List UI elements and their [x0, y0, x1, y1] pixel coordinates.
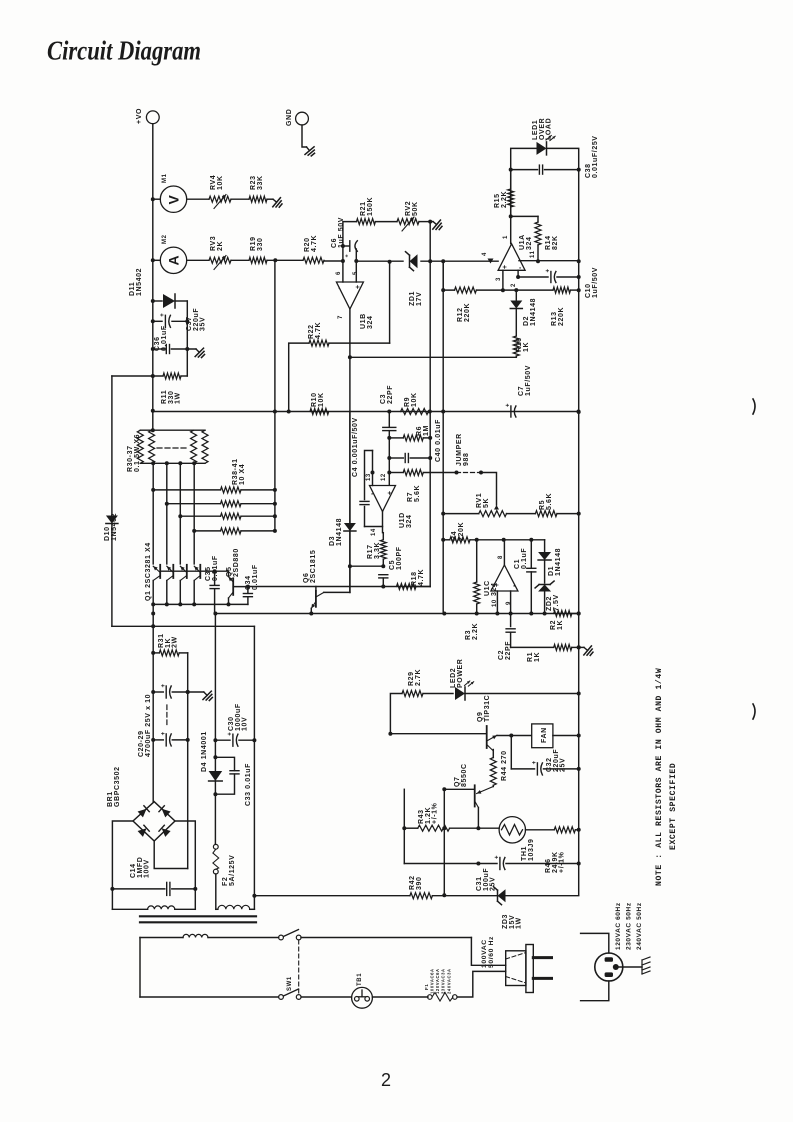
svg-text:R224.7K: R224.7K	[308, 322, 322, 339]
wire node A	[267, 259, 303, 261]
wire C30 column	[253, 626, 255, 909]
diode D1 1N4148	[544, 540, 546, 552]
svg-text:R44 270: R44 270	[501, 750, 508, 781]
capacitor C7 1uF/50V	[510, 406, 512, 417]
ground	[200, 688, 215, 703]
meter M2	[160, 247, 186, 273]
wire bridge left	[112, 821, 133, 889]
wire	[423, 693, 453, 695]
potentiometer RV3 2K	[209, 257, 231, 263]
ground	[580, 643, 595, 658]
svg-text:+: +	[228, 732, 234, 736]
capacitor C3 22PF	[388, 412, 390, 428]
resistor R3 2.2K	[476, 540, 478, 582]
svg-text:R61M: R61M	[416, 425, 430, 436]
svg-text:TB1: TB1	[357, 973, 363, 986]
svg-text:4: 4	[482, 252, 488, 256]
wire	[372, 996, 428, 998]
transistor Q1c 2SC3281	[186, 565, 188, 578]
svg-text:U1D324: U1D324	[399, 512, 413, 528]
wire M2 row	[153, 259, 161, 261]
capacitor C31 100uF 25V	[499, 858, 501, 870]
svg-text:11: 11	[530, 250, 536, 258]
resistor R7 5.6K	[403, 470, 423, 476]
svg-text:C33 0.01uF: C33 0.01uF	[245, 763, 252, 806]
svg-text:100VAC50/60 Hz: 100VAC50/60 Hz	[481, 936, 495, 968]
wire	[231, 259, 249, 261]
svg-text:C40 0.01uF: C40 0.01uF	[435, 419, 442, 462]
LED LED2 POWER	[455, 687, 465, 700]
svg-text:R1482K: R1482K	[545, 235, 559, 250]
wire to U1B inputs	[324, 260, 343, 262]
wire D10 bottom row	[112, 625, 255, 627]
svg-text:6: 6	[336, 271, 342, 275]
wire Q9 emitter row	[497, 735, 532, 737]
resistor R15 2.2K	[510, 170, 512, 189]
svg-text:ZD117V: ZD117V	[409, 291, 423, 306]
wire U1B pin5	[355, 249, 357, 282]
capacitor C20 4700uF	[153, 691, 163, 693]
resistor R16 1K	[513, 336, 519, 356]
wire ground column	[429, 222, 431, 587]
wire AC bottom	[140, 996, 279, 998]
svg-text:R2333K: R2333K	[250, 175, 264, 190]
wire	[432, 895, 497, 897]
transformer secondary 2	[216, 908, 218, 910]
wire D4 column	[214, 614, 216, 772]
svg-text:Q1 2SC3281 X4: Q1 2SC3281 X4	[145, 542, 152, 601]
svg-text:A: A	[166, 255, 182, 265]
wire connector top	[581, 933, 609, 953]
resistor R44 270	[490, 758, 496, 786]
transistor Q7 8550C	[474, 785, 476, 806]
svg-text:RV250K: RV250K	[405, 201, 419, 216]
wire Q6 collector	[316, 592, 324, 597]
svg-text:RV410K: RV410K	[210, 175, 224, 190]
op-amp U1B 324	[336, 282, 363, 309]
capacitor C14 1MFD 100V	[112, 888, 164, 890]
wire R7 row	[389, 472, 403, 474]
svg-text:R11K: R11K	[527, 652, 541, 662]
svg-text:+VO: +VO	[136, 108, 143, 124]
plug P1	[506, 951, 526, 986]
wire column x275	[274, 260, 276, 531]
wire rail	[215, 604, 579, 613]
svg-text:2: 2	[381, 1070, 391, 1090]
svg-text:+: +	[387, 491, 394, 495]
svg-text:U1A324: U1A324	[519, 234, 533, 250]
svg-text:R184.7K: R184.7K	[411, 569, 425, 586]
wire C31 row	[404, 863, 497, 865]
terminal TB1	[352, 987, 373, 1008]
ground	[192, 345, 207, 360]
wire R43 row	[403, 789, 405, 863]
wire	[375, 221, 397, 223]
wire base drive	[248, 586, 430, 588]
wire pin11 row	[519, 260, 579, 262]
wire feedback R22	[289, 343, 309, 411]
resistor R18 4.7K	[397, 584, 417, 590]
diode D3 1N4148	[349, 412, 351, 524]
resistor R5 5.6K	[507, 513, 536, 515]
wire cap bank right rail	[187, 653, 189, 869]
capacitor C36 0.01uF	[153, 348, 165, 350]
wire U1B output	[349, 309, 351, 592]
fan FAN	[532, 724, 553, 748]
resistor R22 4.7K	[309, 340, 329, 346]
thermistor TH1 103J9	[499, 817, 525, 843]
diode D11 1N5402	[153, 300, 162, 302]
bridge rectifier BR1 GBPC3502	[133, 802, 175, 841]
ground	[302, 143, 317, 158]
svg-text:+: +	[160, 313, 166, 317]
wire vertical	[186, 301, 188, 376]
terminal GND	[296, 112, 309, 125]
resistor R14 82K	[537, 216, 539, 222]
wire left column	[152, 604, 154, 801]
resistor R1 1K	[554, 644, 572, 650]
svg-text:+: +	[495, 855, 501, 859]
wire Q7 base	[444, 788, 474, 790]
resistor R42 390	[410, 893, 433, 899]
svg-text:R292.7K: R292.7K	[408, 669, 422, 686]
wire bottom row	[256, 895, 410, 897]
wire LED1 loop	[511, 148, 537, 216]
connector J1 120/230/240VAC	[595, 953, 623, 981]
svg-text:1: 1	[503, 235, 509, 239]
wire earth	[619, 966, 642, 968]
svg-text:2: 2	[511, 283, 517, 287]
scan artifact	[753, 399, 755, 414]
svg-text:+: +	[506, 403, 512, 407]
svg-text:+: +	[345, 254, 351, 257]
ground	[429, 217, 444, 232]
wire R1 row	[511, 646, 554, 648]
terminal +VO	[146, 111, 159, 124]
meter M1	[160, 186, 186, 212]
svg-text:U1B324: U1B324	[360, 313, 374, 329]
wire	[526, 829, 555, 831]
wire column	[443, 789, 445, 895]
svg-text:14: 14	[371, 528, 377, 536]
svg-text:R19330: R19330	[250, 236, 264, 251]
transistor Q1b 2SC3281	[172, 565, 174, 578]
svg-text:SW1: SW1	[287, 976, 293, 991]
wire R14 top	[511, 215, 538, 217]
capacitor C1 0.1uF	[530, 540, 532, 569]
transistor Q1d 2SC3281	[199, 565, 201, 578]
zener ZD1 17V	[410, 254, 418, 268]
wire bridge right	[175, 821, 195, 889]
svg-text:FAN: FAN	[541, 727, 548, 743]
op-amp U1C 324	[491, 565, 518, 591]
svg-text:EXCEPT SPECIFIED: EXCEPT SPECIFIED	[669, 763, 678, 850]
wire U1C pin8	[503, 540, 505, 565]
svg-text:V: V	[166, 195, 182, 205]
diode D4 1N4001	[209, 771, 223, 781]
resistor R12 220K	[455, 287, 477, 293]
svg-text:120VAC 60Hz230VAC 50Hz240VAC 5: 120VAC 60Hz230VAC 50Hz240VAC 50Hz	[615, 902, 643, 950]
capacitor C32 220uF 25V	[510, 736, 512, 769]
capacitor C37 220uF 35V	[153, 320, 162, 322]
transformer secondary 1	[111, 889, 113, 909]
resistor R21 150K	[357, 219, 376, 225]
op-amp U1D 324	[370, 486, 396, 512]
resistor bank R30-37 0.1 5W X6	[140, 429, 205, 431]
wire Q9 base	[390, 733, 486, 735]
diode D2 1N4148	[515, 290, 517, 300]
wire AC left	[139, 938, 141, 998]
resistor R38 10	[153, 489, 220, 491]
wire U1B pin6	[342, 261, 344, 282]
svg-text:+: +	[546, 268, 552, 272]
svg-text:13: 13	[366, 473, 372, 481]
capacitor C29 4700uF	[153, 739, 163, 741]
resistor R41 10	[194, 530, 220, 532]
svg-text:+: +	[161, 731, 167, 735]
wire D3 to R17	[350, 565, 383, 567]
svg-text:3: 3	[496, 277, 502, 281]
resistor R20 4.7K	[303, 257, 324, 263]
resistor R40 10	[180, 515, 220, 517]
svg-text:Circuit Diagram: Circuit Diagram	[47, 35, 201, 66]
resistor R10 10K	[310, 409, 329, 415]
resistor R46 24.9K +/-1%	[554, 827, 575, 833]
potentiometer RV1 5K	[494, 505, 499, 510]
svg-text:7: 7	[338, 315, 344, 319]
wire U1A pin3	[502, 270, 504, 290]
svg-text:+: +	[355, 285, 362, 289]
transistor Q9 TIP31C	[486, 726, 488, 748]
zener ZD3 15V 1W	[498, 889, 506, 902]
svg-text:F1: F1	[424, 984, 429, 990]
zener ZD2 7.5V	[538, 585, 551, 592]
wire +VO rail	[152, 124, 154, 411]
wire GND stub	[302, 125, 307, 147]
ground	[269, 195, 284, 210]
svg-text:+: +	[532, 760, 538, 764]
resistor R39 10	[167, 503, 221, 505]
resistor R31 1K 2W	[153, 652, 159, 654]
svg-text:12: 12	[381, 473, 387, 481]
transistor Q1a 2SC3281	[159, 565, 161, 578]
wire U1A pin4 arrow	[488, 259, 494, 264]
wire switch dashed link	[298, 940, 300, 995]
wire output to R17	[382, 527, 385, 533]
transformer primary coil	[183, 934, 208, 937]
svg-text:D4 1N4001: D4 1N4001	[201, 731, 208, 772]
fuse F1	[428, 995, 433, 1000]
svg-text:R42390: R42390	[409, 875, 423, 890]
fuse F2 5A/125V	[214, 843, 216, 845]
svg-text:M1: M1	[162, 173, 168, 183]
wire AC top	[140, 937, 183, 939]
potentiometer RV2 50K	[397, 219, 419, 225]
wire bridge bottom	[154, 841, 188, 869]
wire dashed more caps	[166, 705, 168, 726]
capacitor C35 0.01uF	[214, 571, 216, 585]
wire main bus	[153, 411, 579, 413]
svg-text:+: +	[161, 683, 167, 687]
switch SW1 top	[279, 935, 284, 940]
capacitor C30 1000uF 10V	[215, 739, 230, 741]
wire emitter columns	[152, 463, 154, 564]
resistor R11 330 1W	[112, 375, 163, 377]
wire	[419, 221, 433, 223]
resistor R23 33K	[249, 196, 267, 202]
wire	[231, 198, 249, 200]
resistor R2 1K	[554, 611, 572, 617]
svg-text:100VAC6A120VAC6A230VAC3A240VAC: 100VAC6A120VAC6A230VAC3A240VAC3A	[430, 968, 452, 994]
svg-text:R173.3K: R173.3K	[367, 542, 381, 559]
svg-text:R1010K: R1010K	[311, 392, 325, 407]
svg-text:LED1OVERLOAD: LED1OVERLOAD	[532, 118, 553, 140]
wire M1	[153, 198, 161, 200]
svg-text:GND: GND	[286, 109, 293, 126]
op-amp U1A 324	[510, 216, 512, 243]
wire U1A pin2	[517, 270, 519, 277]
diode D10 1N5402	[111, 376, 113, 515]
resistor R29 2.7K	[402, 691, 423, 697]
resistor R4 220K	[443, 539, 450, 541]
svg-text:R204.7K: R204.7K	[304, 235, 318, 252]
wire jumper to RV1	[481, 473, 497, 506]
resistor R19 330	[249, 257, 267, 263]
transistor Q6 2SC1815	[315, 587, 317, 591]
wire	[329, 342, 390, 344]
wire Q9 collector R44	[492, 750, 494, 758]
wire U1C pin10	[496, 591, 498, 614]
wire zener branch	[389, 262, 391, 343]
svg-text:M2: M2	[162, 234, 168, 244]
wire LED2 row	[390, 694, 402, 734]
capacitor C38 0.01uF/25V	[511, 169, 538, 171]
wire FAN right	[553, 735, 579, 737]
wire R21 top	[343, 222, 357, 261]
wire emitter columns lower	[166, 504, 168, 564]
wire	[301, 996, 352, 998]
svg-text:8: 8	[498, 555, 504, 559]
switch SW1 bottom	[279, 995, 284, 1000]
capacitor C34 0.01uF	[246, 585, 250, 589]
capacitor C6 1uF 50V	[343, 245, 350, 247]
resistor R9 10K	[401, 409, 429, 415]
capacitor C33 0.01uF	[215, 757, 234, 770]
wire Q1 base line	[160, 570, 214, 572]
wire to plug	[457, 971, 506, 997]
transformer core	[140, 915, 256, 917]
wire output row	[350, 356, 516, 358]
capacitor C40 0.01uF	[389, 457, 403, 459]
resistor R43 1.2K +/-1%	[404, 827, 418, 829]
wire	[267, 198, 273, 200]
wire to U1A	[356, 260, 403, 262]
capacitor C10 1uF/50V	[518, 276, 548, 278]
jumper 988	[457, 472, 482, 474]
capacitor C2 22PF	[506, 628, 515, 630]
svg-text:ZD27.5V: ZD27.5V	[546, 594, 560, 611]
resistor R17 3.3K	[382, 533, 384, 540]
svg-text:NOTE : ALL RESISTORS ARE IN OH: NOTE : ALL RESISTORS ARE IN OHM AND 1/4W	[655, 668, 664, 886]
wire U1C pin9	[510, 591, 512, 627]
wire R12 row	[443, 262, 454, 290]
LED LED1 OVER LOAD	[537, 142, 547, 155]
wire	[208, 937, 279, 939]
wire Q1 collector rail	[153, 603, 248, 605]
wire C40 column	[442, 262, 444, 614]
resistor R6 1M	[403, 435, 423, 441]
wire pin12 column	[387, 410, 391, 414]
wire U1D pin13	[372, 451, 374, 486]
potentiometer RV4 10K	[209, 196, 231, 202]
svg-text:C4 0.001uF/50V: C4 0.001uF/50V	[352, 417, 359, 477]
svg-text:R152.2K: R152.2K	[494, 191, 508, 208]
wire connector bottom	[581, 981, 609, 1001]
svg-text:+: +	[502, 265, 509, 269]
resistor R13 220K	[553, 287, 571, 293]
wire U1D output	[365, 512, 383, 527]
svg-text:U1C324: U1C324	[484, 580, 498, 596]
wire	[423, 472, 456, 474]
capacitor C4 0.001uF/50V	[365, 451, 373, 500]
wire	[301, 937, 471, 939]
transistor Q5 2SD880	[232, 578, 234, 595]
earth ground	[642, 957, 650, 974]
capacitor C5 100PF	[379, 574, 388, 576]
svg-text:R21K: R21K	[550, 620, 564, 630]
